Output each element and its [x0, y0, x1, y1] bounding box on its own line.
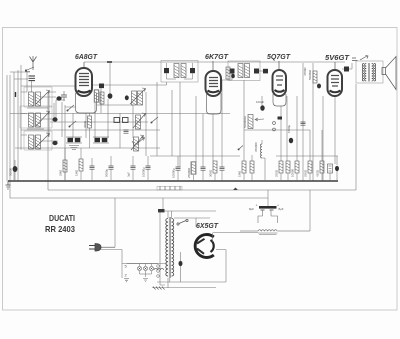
wire left vertical 2 [13, 72, 15, 181]
tuning arrow L5 [133, 113, 146, 128]
wire riser x180 [179, 82, 181, 167]
resistor R14 [286, 161, 290, 181]
svg-text:300Ω: 300Ω [83, 120, 87, 128]
svg-text:6X5GT: 6X5GT [196, 223, 219, 230]
dial lamps [137, 266, 141, 270]
wire osc vertical x101 [100, 87, 102, 113]
svg-text:250Ω: 250Ω [304, 169, 308, 177]
volume potentiometer P1 [243, 115, 264, 129]
bias resistor hatch [152, 287, 216, 290]
rectifier tube 6X5GT [195, 235, 214, 258]
wire right vertical x356 [355, 84, 357, 190]
oscillator trimmer bead 2 [125, 95, 129, 100]
wire vertical x56 [55, 100, 57, 122]
wire riser x281 [280, 106, 282, 161]
wire vertical x62 [61, 102, 63, 137]
svg-text:350000: 350000 [254, 142, 258, 152]
svg-text:10000µ: 10000µ [172, 168, 176, 178]
wire mid horizontal y148 [15, 147, 160, 149]
svg-text:100µF: 100µF [256, 100, 264, 104]
svg-text:300Ω: 300Ω [209, 169, 213, 177]
svg-text:1500µ: 1500µ [287, 125, 291, 133]
junction arrow at y190 [233, 188, 238, 191]
wire antenna left links [10, 72, 30, 79]
capacitor C8 [124, 130, 129, 133]
svg-text:RR 2403: RR 2403 [45, 224, 75, 234]
wire right vertical x313 [312, 63, 314, 181]
wire C21 top stub [177, 156, 179, 167]
switch contact S3a [273, 122, 276, 125]
resistor R7 [75, 148, 84, 181]
svg-text:10000µ: 10000µ [142, 167, 146, 177]
resistor R11 [250, 155, 254, 181]
oscillator trimmer bead [108, 93, 113, 99]
wire riser x244 [243, 80, 245, 161]
svg-text:3µF: 3µF [127, 172, 131, 177]
capacitor C21 [172, 167, 181, 181]
mains plug [89, 244, 115, 252]
tuning arrow L4 [130, 88, 146, 104]
wire riser x196 [195, 96, 197, 162]
wire osc vertical x133 [132, 105, 134, 138]
cathode resistor R18 [83, 113, 92, 148]
power transformer [166, 217, 174, 278]
capacitor C16 [9, 160, 18, 181]
coil box row1 [24, 87, 52, 107]
wire riser x172 [171, 90, 173, 156]
lamp wires [135, 264, 158, 282]
antenna trimmer [25, 67, 34, 72]
capacitor C24 [328, 164, 333, 181]
cap tick on x15 wire [15, 92, 17, 97]
capacitor C19 [127, 156, 136, 181]
wire osc vertical x84 [85, 113, 87, 138]
coil box row2 [20, 106, 52, 128]
switch contact S2 [151, 117, 158, 123]
tuning arrow L2 [36, 111, 50, 126]
wire left vertical x7 [6, 75, 8, 181]
wire choke right riser [309, 190, 311, 231]
wire vertical x27 top [26, 72, 28, 92]
wire riser x157 [156, 82, 158, 156]
power switch [177, 219, 188, 225]
svg-text:8µF: 8µF [279, 207, 284, 211]
RF coil L1 [29, 90, 50, 106]
grid resistor R5 [308, 69, 317, 83]
ground bus [8, 180, 338, 182]
wire left vertical 3 [17, 70, 19, 181]
ground symbol left [6, 181, 11, 189]
switch contact S3b [273, 128, 276, 131]
svg-text:8µF: 8µF [249, 207, 254, 211]
svg-text:410Ω: 410Ω [316, 169, 320, 177]
capacitor C20 [142, 156, 151, 181]
selector taps 5-2 [124, 264, 135, 282]
svg-text:5V6GT: 5V6GT [325, 55, 350, 62]
capacitor C18 [105, 156, 114, 181]
tone jack [352, 56, 368, 61]
wire riser x213 [212, 114, 214, 161]
wire mid horizontal y105 [65, 105, 133, 107]
wire B+ top rail [84, 61, 345, 63]
resistor R8 [187, 162, 196, 182]
grid cap 5Q7 [263, 69, 268, 74]
svg-text:1MΩ: 1MΩ [238, 170, 242, 177]
wire det horizontal y130 [244, 129, 310, 131]
coupling capacitor C15 [344, 67, 349, 72]
fuse block [158, 209, 165, 212]
wire antenna to coil [31, 81, 33, 92]
wire bead stubs [41, 97, 58, 141]
coupling bead C12 [289, 138, 293, 144]
wire mid horizontal y156 [150, 155, 240, 157]
wire riser x297 [296, 96, 298, 161]
grid cap capacitor C5 [99, 84, 104, 89]
svg-text:50000: 50000 [9, 168, 13, 176]
wire riser x287 [286, 96, 288, 161]
wire mid horizontal y156b [276, 155, 338, 157]
trimmer arrow [132, 137, 145, 146]
wire osc vertical x108 [107, 99, 109, 138]
wire vertical x54 [53, 103, 55, 118]
coil box row3 [24, 131, 52, 150]
svg-text:10000: 10000 [291, 169, 295, 177]
wire osc vertical x120 [119, 113, 121, 148]
wire osc riser x110 [109, 62, 111, 93]
wire mid horizontal y122 [50, 121, 148, 123]
oscillator coil L6 [131, 135, 144, 151]
tuning arrow L1 [36, 90, 50, 104]
resistor R4 coil [261, 144, 263, 158]
wire vertical x49 [48, 92, 50, 137]
grid resistor R3 [226, 67, 230, 79]
filter capacitor block [249, 204, 284, 224]
svg-text:1MΩ: 1MΩ [75, 169, 79, 176]
svg-text:5Q7GT: 5Q7GT [267, 54, 291, 61]
wire 5V6 plate to C15 [342, 63, 352, 69]
wire osc vertical x65 [64, 105, 66, 181]
capacitor C13 [301, 122, 306, 125]
RF coil L2 [29, 111, 50, 127]
wire 6A8 plate to IF1 [92, 82, 167, 85]
wire riser x222 [221, 80, 223, 167]
svg-text:5000µ: 5000µ [105, 169, 109, 177]
wire IF2 to 5Q7 grid cap [259, 70, 263, 72]
wire left vertical 4 [20, 65, 22, 150]
wire 6A8 cathode line [21, 85, 75, 87]
trimmer cap T1 [56, 96, 61, 100]
wire riser x203 [202, 114, 204, 167]
tuning gang section 2 [93, 137, 109, 143]
wire filter cap drop [267, 190, 269, 206]
capacitor C4 [61, 91, 67, 101]
wire riser x322 [321, 130, 323, 161]
tuning arrow L6 [131, 135, 144, 150]
wire tuner mesh [21, 92, 65, 135]
svg-text:+: + [256, 204, 258, 208]
wire right vertical x323 [322, 96, 324, 181]
tuning arrow L3 [36, 133, 50, 147]
capacitor C23 [220, 167, 225, 181]
wire 6K7 plate to IF2 [221, 74, 232, 81]
svg-text:4700Ω: 4700Ω [303, 67, 307, 76]
voltage selector [157, 265, 160, 278]
svg-text:500000Ω: 500000Ω [243, 115, 247, 128]
trimmer cap T2 [52, 117, 57, 121]
wire riser x268det [261, 96, 263, 105]
wire AVC left vertical [10, 75, 268, 198]
wire R4 to bus [262, 158, 265, 181]
wire mid horizontal y130 [21, 129, 160, 131]
capacitor C11 [278, 117, 283, 120]
oscillator coil L4 [130, 88, 146, 105]
band switch contact S1b [69, 121, 76, 127]
wire riser x337 [336, 156, 338, 165]
resistor R15 [291, 161, 300, 181]
antenna series capacitor [29, 76, 36, 81]
resistor R17 [316, 161, 325, 181]
resistor R16 [304, 161, 313, 181]
capacitor C17 [90, 158, 95, 181]
bottom section wires [101, 198, 258, 288]
svg-text:DUCATI: DUCATI [49, 213, 75, 223]
field coil choke [240, 230, 310, 235]
resistor R10 [238, 161, 247, 181]
wire right vertical x303 [302, 63, 304, 181]
oscillator coil L5 [133, 113, 146, 129]
wire lower horizontal 1 [48, 189, 356, 191]
padder capacitor C6 [114, 118, 120, 123]
resistor R13 [275, 161, 284, 181]
wire 5V6 cathode drop [334, 96, 336, 164]
junction blob on rail [107, 61, 112, 63]
screen bead C9 [231, 74, 235, 78]
svg-text:6K7GT: 6K7GT [205, 54, 229, 61]
capacitor C22 [201, 167, 206, 181]
resistor R2 [100, 92, 104, 104]
detector capacitor C10 [260, 105, 264, 111]
grid bead C14 [317, 84, 321, 89]
padder capacitor C7 [123, 118, 129, 123]
wire osc vertical x146 [145, 92, 147, 156]
resistor R6 [59, 148, 68, 181]
filament winding [154, 268, 164, 270]
wire riser x310 [309, 130, 311, 161]
switch contact S4 [238, 146, 243, 151]
RF coil L3 [29, 133, 50, 149]
wire mid horizontal y113 [10, 113, 230, 115]
svg-text:50000Ω: 50000Ω [308, 69, 312, 80]
tube base skirt 6A8 [76, 93, 97, 113]
svg-text:250Ω: 250Ω [275, 169, 279, 177]
capacitor bead C25 [335, 166, 339, 181]
trimmer cap T3 [52, 141, 57, 145]
tuning gang section 1 [66, 137, 82, 150]
resistor R9 [209, 161, 218, 181]
resistor R1 [94, 90, 99, 103]
wire vertical x48 [47, 92, 49, 190]
terminal strip on y190 [157, 186, 182, 190]
svg-text:2MΩ: 2MΩ [59, 169, 63, 176]
svg-text:25000Ω: 25000Ω [187, 167, 191, 178]
cathode bypass bead [179, 252, 183, 282]
band switch contact S1a [67, 105, 74, 111]
wire osc vertical x73 [72, 113, 74, 138]
svg-text:6A8GT: 6A8GT [75, 54, 98, 61]
wire osc vertical x95 [94, 103, 96, 138]
